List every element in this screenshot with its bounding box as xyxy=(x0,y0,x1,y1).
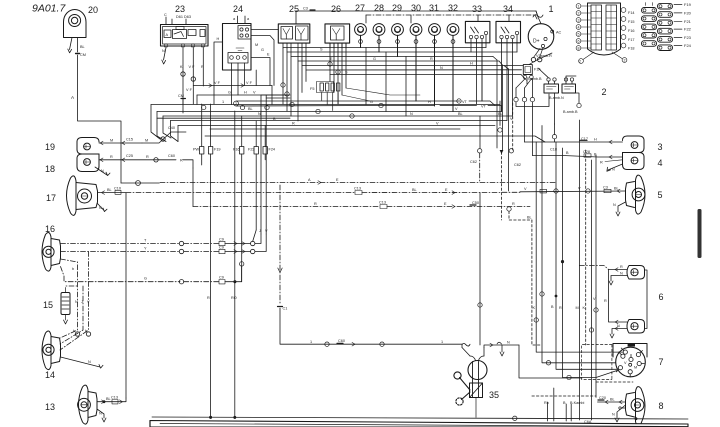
lamp 6 bracket xyxy=(645,270,648,329)
svg-text:R: R xyxy=(620,265,623,269)
svg-text:N: N xyxy=(612,168,615,172)
wire bus y183 xyxy=(121,181,159,186)
wire vertical RO to bottom xyxy=(231,111,237,419)
wire N ground lamp14 xyxy=(61,357,104,368)
svg-text:N: N xyxy=(162,49,165,53)
wire H lamp3 xyxy=(525,137,623,144)
inline fuse PW xyxy=(193,147,204,155)
svg-text:3: 3 xyxy=(657,142,662,152)
regulator 23 top pins xyxy=(164,13,191,25)
svg-text:1: 1 xyxy=(578,4,580,8)
gauge 32 xyxy=(447,24,459,112)
svg-text:27: 27 xyxy=(355,3,365,13)
wire K VF R below 23 xyxy=(180,48,204,105)
wire R N lamp6 top xyxy=(604,265,627,322)
tail lamp cluster 19 xyxy=(77,138,99,155)
fuse labels F19-F24 xyxy=(684,2,692,48)
svg-text:19: 19 xyxy=(45,142,55,152)
svg-text:C15: C15 xyxy=(126,138,133,142)
svg-text:V1amb.R: V1amb.R xyxy=(536,54,552,58)
svg-text:N: N xyxy=(99,206,102,210)
svg-text:D61 D63: D61 D63 xyxy=(176,15,191,19)
wire VF row below 24 xyxy=(193,81,272,105)
svg-text:C62: C62 xyxy=(470,160,477,164)
wire horn ground xyxy=(68,38,72,53)
svg-text:AC: AC xyxy=(556,31,562,35)
switch 33 pins xyxy=(471,35,486,104)
svg-text:R: R xyxy=(314,202,317,206)
wire N ground lamp4 xyxy=(607,164,623,172)
svg-text:6: 6 xyxy=(658,292,663,302)
svg-text:C1: C1 xyxy=(283,307,288,311)
svg-text:B.Kambi: B.Kambi xyxy=(570,401,585,405)
wire vertical F24 drop xyxy=(264,126,266,160)
wire verticals below 26 xyxy=(328,43,420,104)
gauge 31 xyxy=(429,24,441,106)
switch box 34 xyxy=(496,21,521,42)
svg-text:1: 1 xyxy=(222,100,224,104)
svg-text:J: J xyxy=(81,300,83,304)
svg-text:C13: C13 xyxy=(111,396,118,400)
svg-text:N: N xyxy=(440,66,443,70)
wire verticals below 25 xyxy=(281,48,306,121)
wire top dashdot run to dynamo xyxy=(296,7,538,24)
wire BL lamp17 xyxy=(98,187,127,399)
svg-text:F23: F23 xyxy=(684,35,692,40)
svg-text:C10: C10 xyxy=(114,187,121,191)
wire N branch at 35 xyxy=(484,341,582,379)
svg-text:2: 2 xyxy=(624,58,626,62)
wire bottom drops to box xyxy=(544,388,585,421)
svg-text:BL: BL xyxy=(527,216,532,220)
svg-text:8: 8 xyxy=(578,46,580,50)
wire BL lamp13 xyxy=(97,396,126,404)
svg-text:7: 7 xyxy=(658,357,663,367)
switch box 33 xyxy=(465,21,490,42)
svg-text:N: N xyxy=(507,341,510,345)
svg-text:N: N xyxy=(88,360,91,364)
svg-text:N: N xyxy=(613,203,616,207)
svg-text:28: 28 xyxy=(374,3,384,13)
svg-text:N: N xyxy=(410,112,413,116)
svg-text:F17: F17 xyxy=(628,38,635,42)
wire NJV verticals dashdot xyxy=(60,252,91,351)
svg-text:R: R xyxy=(207,296,210,300)
wire V lamp5 xyxy=(520,185,626,193)
wire N ground lamp5 xyxy=(613,202,626,216)
ballast resistor 15 xyxy=(61,286,78,324)
number plate lamp 6 bottom xyxy=(627,320,645,334)
wire ignition feed 35 xyxy=(462,348,484,361)
wire vertical J V from band xyxy=(261,95,290,234)
regulator 23 bottom pins xyxy=(162,44,205,53)
wire dashed vertical 585 xyxy=(583,150,586,345)
wire upper band labels xyxy=(255,43,473,75)
svg-text:V F: V F xyxy=(214,81,221,85)
gauge 28 xyxy=(373,24,385,52)
svg-text:M: M xyxy=(576,306,579,310)
svg-text:20: 20 xyxy=(88,5,98,15)
svg-text:R: R xyxy=(292,122,295,126)
tail lamp cluster 4 xyxy=(623,153,645,170)
svg-text:F18: F18 xyxy=(628,47,635,51)
svg-text:R: R xyxy=(600,161,603,165)
svg-text:b: b xyxy=(85,329,87,333)
svg-text:C6A: C6A xyxy=(584,420,592,424)
svg-text:29: 29 xyxy=(392,3,402,13)
svg-text:N: N xyxy=(617,324,620,328)
svg-text:14: 14 xyxy=(45,370,55,380)
wire R dashdot to lamp6 xyxy=(579,266,608,270)
svg-text:BL: BL xyxy=(458,112,463,116)
wire N ground lamp13 xyxy=(97,409,106,422)
svg-text:D+: D+ xyxy=(533,39,540,45)
svg-text:F20: F20 xyxy=(684,10,692,15)
svg-text:N: N xyxy=(101,169,104,173)
wire fan right of 24 xyxy=(232,16,279,105)
inline fuse F24 xyxy=(263,147,275,155)
svg-text:C3: C3 xyxy=(303,7,308,11)
wire A from horn down xyxy=(71,38,121,184)
wire N ground lamp8 xyxy=(612,405,626,422)
wire middle bus band xyxy=(151,102,545,142)
svg-text:C60: C60 xyxy=(168,154,175,158)
svg-text:V F: V F xyxy=(246,81,253,85)
svg-text:2: 2 xyxy=(235,102,237,106)
svg-text:31: 31 xyxy=(429,3,439,13)
fuse row F5 group xyxy=(310,82,340,111)
svg-text:C13: C13 xyxy=(379,201,386,205)
svg-text:RO: RO xyxy=(231,296,237,300)
svg-text:N: N xyxy=(75,300,78,304)
svg-text:G: G xyxy=(261,48,264,52)
scan artifact bar xyxy=(698,209,702,258)
number plate lamp 6 top xyxy=(627,266,645,280)
wire vertical F16 drop xyxy=(240,116,244,282)
relay box 24 xyxy=(223,24,252,71)
wire BL dashdot row xyxy=(126,187,520,195)
svg-text:33: 33 xyxy=(472,4,482,14)
svg-text:C9: C9 xyxy=(219,238,224,242)
svg-text:BL: BL xyxy=(248,107,253,111)
svg-text:N: N xyxy=(99,412,102,416)
rear lamp 8 xyxy=(626,387,646,426)
svg-text:17: 17 xyxy=(46,193,56,203)
wire vertical K to 7 xyxy=(533,142,624,352)
fuel gauge sender 35 xyxy=(454,361,487,418)
svg-text:B.amb.N: B.amb.N xyxy=(549,96,564,100)
side lamp 5 xyxy=(626,175,646,214)
relay box 26 xyxy=(325,24,350,43)
wire A E dashdot row xyxy=(160,178,555,184)
svg-text:F24: F24 xyxy=(269,148,276,152)
svg-text:8: 8 xyxy=(658,401,663,411)
svg-text:1: 1 xyxy=(441,340,443,344)
svg-text:C60: C60 xyxy=(338,339,345,343)
wire VT row xyxy=(234,99,502,112)
svg-text:R: R xyxy=(201,65,204,69)
svg-text:Ro: Ro xyxy=(544,401,549,405)
regulator 23 xyxy=(161,25,209,47)
gauge 29 xyxy=(392,24,404,57)
svg-text:2: 2 xyxy=(578,11,580,15)
head lamp 14 xyxy=(42,331,61,370)
fuse panel connector block xyxy=(588,3,621,55)
svg-text:26: 26 xyxy=(331,4,341,14)
fuse label ticks xyxy=(674,5,682,46)
svg-text:H: H xyxy=(217,37,220,41)
svg-text:F15: F15 xyxy=(628,20,635,24)
svg-text:4: 4 xyxy=(657,158,662,168)
svg-text:F23: F23 xyxy=(248,148,255,152)
svg-text:N: N xyxy=(612,413,615,417)
svg-text:M: M xyxy=(145,139,148,143)
relay 25 pins xyxy=(283,43,306,48)
svg-text:24: 24 xyxy=(233,4,243,14)
wire right vertical 500 xyxy=(498,101,502,132)
wire vertical M 579 xyxy=(561,120,579,420)
svg-text:b: b xyxy=(73,329,75,333)
svg-text:H: H xyxy=(244,91,247,95)
svg-text:C: C xyxy=(164,13,167,17)
wire upper bus band xyxy=(283,48,527,81)
svg-text:2: 2 xyxy=(579,59,581,63)
svg-text:1: 1 xyxy=(548,4,553,14)
wire N ground regulator xyxy=(162,48,166,65)
wire G lamp16 dashdot xyxy=(61,266,242,284)
wire B R lamp4 xyxy=(532,148,622,165)
svg-text:M: M xyxy=(110,139,113,143)
wire right vertical 480 xyxy=(470,43,521,345)
svg-text:BL: BL xyxy=(412,188,417,192)
svg-text:G: G xyxy=(228,91,231,95)
svg-text:25: 25 xyxy=(289,4,299,14)
head lamp 16 xyxy=(42,233,61,272)
wire right verticals bundle xyxy=(478,60,550,220)
svg-text:M: M xyxy=(634,366,637,370)
svg-text:F16: F16 xyxy=(233,148,240,152)
svg-text:6: 6 xyxy=(578,39,580,43)
svg-text:18: 18 xyxy=(45,164,55,174)
dynamo 1 top lead xyxy=(533,11,543,24)
wire BL lamp8 xyxy=(598,396,626,409)
component number labels top row xyxy=(88,3,554,15)
wire BL dash branch right xyxy=(509,211,596,399)
svg-text:F21: F21 xyxy=(684,19,692,24)
wire vertical V 596 xyxy=(593,155,598,396)
svg-text:H: H xyxy=(594,138,597,142)
svg-text:23: 23 xyxy=(175,4,185,14)
dynamo 1 xyxy=(528,24,561,50)
svg-text:F14: F14 xyxy=(628,11,635,15)
svg-text:F24: F24 xyxy=(684,43,692,48)
wire M lamp19 xyxy=(99,126,186,145)
svg-text:N: N xyxy=(258,112,261,116)
svg-text:9A01.7: 9A01.7 xyxy=(32,3,66,15)
svg-text:R: R xyxy=(180,159,183,163)
wire N ground lamp17 xyxy=(98,204,108,212)
svg-text:BL: BL xyxy=(107,188,112,192)
svg-text:PW: PW xyxy=(193,148,200,152)
svg-text:F19: F19 xyxy=(684,2,692,7)
svg-text:BL: BL xyxy=(80,45,85,49)
svg-text:V F: V F xyxy=(189,65,196,69)
svg-text:1: 1 xyxy=(310,340,312,344)
svg-text:B.amb.B: B.amb.B xyxy=(527,77,542,81)
svg-text:C9: C9 xyxy=(219,246,224,250)
wire vertical 591 xyxy=(589,160,593,420)
switch 34 pins xyxy=(502,35,518,121)
svg-text:15: 15 xyxy=(43,300,53,310)
wire ignition feed row xyxy=(278,185,471,348)
inline fuse F19 xyxy=(208,147,220,155)
wire R dashdot row xyxy=(193,168,530,211)
svg-text:F19: F19 xyxy=(214,148,221,152)
svg-text:C28: C28 xyxy=(583,150,590,154)
fuse box column A xyxy=(642,3,657,47)
inline fuse F16 xyxy=(233,147,244,155)
wire band left bends xyxy=(151,105,178,142)
svg-text:F5: F5 xyxy=(310,87,314,91)
svg-text:F22: F22 xyxy=(684,27,692,32)
gauge 27 xyxy=(355,24,367,48)
gauge 30 xyxy=(410,24,422,101)
svg-text:13: 13 xyxy=(45,402,55,412)
svg-text:3: 3 xyxy=(578,18,580,22)
wire R lamp18 xyxy=(99,154,193,168)
svg-text:32: 32 xyxy=(448,3,458,13)
wire H left of 24 xyxy=(214,37,223,104)
wire vertical B.amb.N down xyxy=(551,124,617,369)
svg-text:VT: VT xyxy=(481,105,487,109)
inline fuse F23 xyxy=(248,147,258,155)
svg-text:BL: BL xyxy=(614,187,619,191)
svg-text:34: 34 xyxy=(503,4,513,14)
svg-text:35: 35 xyxy=(489,390,499,400)
svg-text:C40: C40 xyxy=(168,126,175,130)
wire N ground lamp18 xyxy=(95,167,110,176)
wire gauge feed drops xyxy=(366,48,406,117)
svg-text:C20: C20 xyxy=(599,396,606,400)
wire bottom bus xyxy=(152,416,688,424)
wire vertical F23 drop xyxy=(253,121,257,241)
svg-text:CM: CM xyxy=(178,94,184,98)
bottom harness box xyxy=(150,421,688,427)
svg-text:b: b xyxy=(72,267,74,271)
wire vertical 562 xyxy=(546,148,633,382)
tail lamp cluster 3 xyxy=(623,136,645,153)
side lamp 17 xyxy=(67,176,98,215)
wire middle band labels xyxy=(222,100,458,126)
svg-text:G: G xyxy=(373,57,376,61)
svg-text:R: R xyxy=(110,155,113,159)
breaker 2 wires xyxy=(527,68,581,124)
svg-text:B.amb.B: B.amb.B xyxy=(563,110,578,114)
svg-text:BL: BL xyxy=(106,397,111,401)
svg-text:H: H xyxy=(470,62,473,66)
horn 20 xyxy=(64,9,87,37)
svg-text:5: 5 xyxy=(657,190,662,200)
tail lamp cluster 18 xyxy=(77,154,99,172)
wire lower rows labels xyxy=(458,112,513,121)
fuse box column B xyxy=(658,3,673,50)
svg-text:R: R xyxy=(604,299,607,303)
svg-text:C13: C13 xyxy=(354,187,361,191)
svg-text:N: N xyxy=(620,272,623,276)
wire N ground lamp6 bottom xyxy=(610,320,627,338)
svg-text:5: 5 xyxy=(578,32,580,36)
park lamp 13 xyxy=(78,385,97,424)
breaker F1A xyxy=(523,48,552,76)
fuse panel bottom leaders xyxy=(579,52,627,63)
svg-text:C25: C25 xyxy=(126,154,133,158)
wire b drop lamp16 xyxy=(61,259,78,272)
svg-text:M: M xyxy=(255,43,258,47)
svg-text:G: G xyxy=(144,277,147,281)
wire GHV row below 24 xyxy=(197,91,290,105)
wire Y lamp16 dashdot xyxy=(61,229,269,254)
connector 7 dashed outline xyxy=(582,345,612,380)
wire vertical 542 xyxy=(540,126,616,363)
svg-text:R: R xyxy=(430,57,433,61)
fuse panel right labels F14-F18 xyxy=(621,8,635,51)
fuse panel left pin numbers xyxy=(576,4,591,51)
svg-text:C9: C9 xyxy=(219,276,224,280)
svg-text:C62: C62 xyxy=(514,163,521,167)
svg-text:R: R xyxy=(146,155,149,159)
svg-text:4: 4 xyxy=(578,25,580,29)
wire H vertical left of 24 xyxy=(255,70,257,86)
svg-text:16: 16 xyxy=(45,224,55,234)
svg-text:V F: V F xyxy=(186,88,193,92)
svg-text:CM: CM xyxy=(80,53,86,57)
connector 7 xyxy=(613,344,647,377)
relay box 25 xyxy=(278,24,310,43)
svg-text:BL: BL xyxy=(610,398,615,402)
svg-text:VT: VT xyxy=(462,100,468,104)
svg-text:C3: C3 xyxy=(603,185,608,189)
svg-text:F16: F16 xyxy=(628,29,635,33)
component number labels sides xyxy=(43,87,664,412)
breaker pair 2 xyxy=(544,78,576,93)
svg-text:R: R xyxy=(559,306,562,310)
svg-text:R: R xyxy=(512,202,515,206)
wire vertical R to bottom xyxy=(202,104,212,419)
relay 26 pins xyxy=(330,43,346,48)
wire T lamp16 dashdot xyxy=(61,229,262,246)
svg-text:30: 30 xyxy=(411,3,421,13)
svg-text:2: 2 xyxy=(601,87,606,97)
wire VF CM stub xyxy=(178,88,193,113)
